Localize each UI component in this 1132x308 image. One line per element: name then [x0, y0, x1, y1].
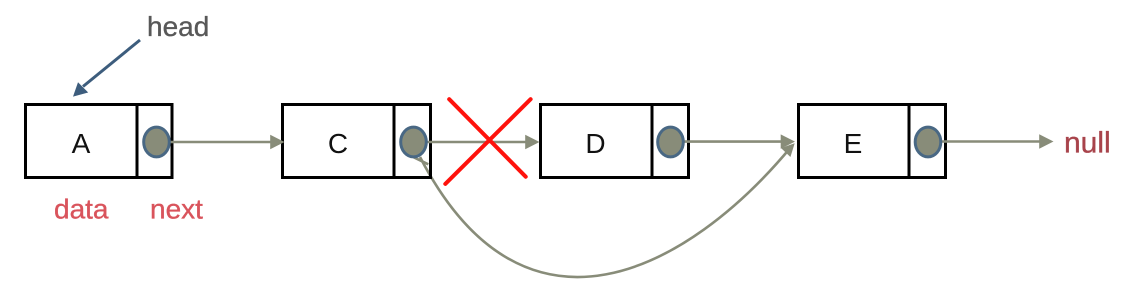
svg-text:C: C	[328, 128, 348, 159]
svg-text:E: E	[844, 128, 863, 159]
svg-text:D: D	[585, 128, 605, 159]
svg-text:next: next	[150, 194, 203, 225]
svg-text:A: A	[72, 128, 91, 159]
svg-text:head: head	[147, 11, 209, 42]
svg-text:null: null	[1064, 127, 1111, 160]
svg-text:data: data	[54, 194, 109, 225]
